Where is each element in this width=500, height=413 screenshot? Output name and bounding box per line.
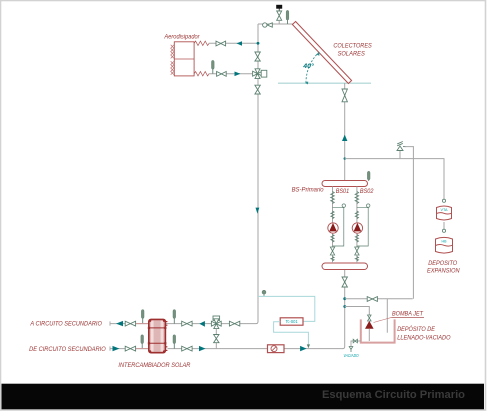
valve bottom row left	[125, 346, 135, 351]
flex connector branch2 upper	[355, 192, 359, 204]
wire: aero bottom pipe	[209, 73, 252, 75]
node at riser top pipe	[257, 42, 260, 45]
expansion tank 2	[436, 237, 453, 253]
red stub top-left	[136, 323, 148, 325]
valve aero top	[216, 41, 226, 46]
thermometer aero bottom	[212, 69, 214, 74]
node: riser tee	[344, 157, 346, 159]
tank llenado-vaciado	[361, 319, 395, 342]
drain valve at tank	[351, 341, 361, 347]
temp sensor on left riser	[263, 294, 265, 296]
wire: jet pump suction	[368, 329, 370, 341]
top manifold	[322, 181, 368, 187]
wire: jet pump discharge	[345, 307, 370, 316]
thermometer above top manifold	[368, 180, 370, 182]
balancing valve with actuator	[213, 316, 220, 320]
fan blades	[171, 45, 174, 59]
wire: right riser lower (pump manifold to bottom line)	[343, 270, 345, 349]
air vent (black)	[278, 9, 280, 12]
svg-text:SOLARES: SOLARES	[338, 51, 366, 58]
flex connector branch2 below pump	[355, 235, 358, 243]
expansion tank 1	[437, 206, 452, 220]
check fitting above jet pump	[368, 315, 372, 321]
control line controller to pipe sensor	[274, 322, 309, 345]
thermometer top-left of HX	[142, 318, 144, 324]
flow arrow from aero	[235, 72, 241, 77]
flex connector branch1 bottom	[331, 257, 334, 261]
connector circle above tank 1	[442, 199, 445, 202]
flex connector branch2 mid	[355, 211, 358, 219]
wire: safety valve stub	[399, 151, 401, 159]
spring top pipe	[194, 41, 209, 45]
wire: aero top pipe	[209, 42, 258, 44]
aerodisipador box	[174, 42, 194, 76]
svg-text:DEPOSITO: DEPOSITO	[428, 260, 457, 267]
wire: dip tube into tank	[386, 299, 388, 333]
valve on drain line	[367, 297, 377, 302]
heat exchanger	[149, 319, 166, 352]
flex connector branch2 bottom	[355, 257, 358, 261]
svg-text:BOMBA JET: BOMBA JET	[392, 311, 424, 318]
flow arrow up on right riser	[342, 135, 347, 141]
pipe sensor arrow	[307, 344, 310, 348]
flex connector branch1 below pump	[331, 235, 334, 243]
svg-text:BS02: BS02	[360, 188, 374, 195]
wire: top row (A circuito secundario)	[110, 323, 256, 325]
valve branch2 lower	[355, 247, 359, 255]
svg-text:BS01: BS01	[336, 188, 350, 195]
flow arrow before riser	[300, 346, 307, 351]
bottom manifold	[322, 263, 368, 270]
control line sensor to controller	[258, 296, 315, 321]
title bar	[2, 384, 485, 410]
safety valve	[397, 142, 406, 151]
svg-text:VACIADO: VACIADO	[344, 353, 360, 358]
valve below collector	[342, 89, 347, 102]
svg-text:LLENADO-VACIADO: LLENADO-VACIADO	[397, 335, 450, 342]
flow arrow down on left riser	[256, 208, 260, 214]
flex connector branch1 mid	[331, 211, 334, 219]
wire: bottom row right of exchanger	[168, 348, 344, 350]
wire: top header pipe to collector	[258, 23, 295, 25]
flow arrow out of HX bottom	[199, 346, 206, 351]
valve branch1 lower	[330, 247, 334, 255]
pump branch 1 pipe	[332, 187, 334, 264]
svg-text:HB: HB	[442, 240, 448, 244]
valve on vent stem	[277, 11, 282, 20]
arc arrowhead bottom	[305, 81, 308, 84]
svg-text:Aerodisipador: Aerodisipador	[163, 35, 200, 41]
svg-text:EXPANSION: EXPANSION	[427, 268, 460, 275]
check valve on header	[263, 23, 267, 27]
start tick top row	[109, 321, 111, 325]
thermometer top-right of HX	[173, 318, 175, 324]
wire: drain line to safety discharge	[345, 298, 413, 300]
svg-text:A CIRCUITO SECUNDARIO: A CIRCUITO SECUNDARIO	[29, 320, 102, 327]
node: riser junction upper	[343, 297, 346, 300]
flow meter	[268, 345, 285, 353]
arc arrowhead top	[316, 52, 319, 56]
flow arrow to aero	[236, 41, 242, 46]
node: riser junction lower	[343, 305, 346, 308]
flow arrow left (a circuito)	[116, 321, 123, 326]
flex connector branch1 upper	[331, 192, 335, 204]
thermometer bottom-left of HX	[141, 343, 143, 348]
gauge bypass branch 2	[357, 208, 368, 246]
valve aero bottom	[217, 72, 227, 77]
valve on riser above 3way	[255, 52, 260, 61]
svg-text:DE CIRCUITO SECUNDARIO: DE CIRCUITO SECUNDARIO	[29, 346, 106, 353]
red stub bottom-left	[136, 348, 148, 350]
flow arrow right (de circuito)	[113, 346, 120, 351]
wire: left riser	[256, 24, 258, 324]
pump BS01	[328, 223, 338, 233]
angle arc 40deg	[306, 53, 319, 83]
valve bottom row right	[182, 346, 192, 351]
valve on riser below 3way	[255, 85, 260, 94]
thermometer on header	[287, 20, 289, 25]
jet pump triangle	[365, 321, 374, 329]
valve below bottom manifold	[342, 277, 347, 287]
check valve on bypass	[214, 335, 219, 343]
svg-text:INTERCAMBIADOR SOLAR: INTERCAMBIADOR SOLAR	[118, 362, 190, 369]
wire: bypass down	[215, 329, 217, 349]
controller Tc-S01	[280, 318, 303, 325]
drain outlet arrow	[349, 347, 353, 353]
valve top row left	[125, 321, 135, 326]
valve right of balancing valve	[229, 321, 239, 326]
flow arrow into HX top	[199, 321, 205, 327]
three-way valve at aero return	[253, 69, 263, 79]
connector circle above tank 2	[443, 222, 445, 229]
wire: bottom row left of exchanger	[110, 348, 148, 350]
wire: safety discharge	[405, 147, 414, 299]
collector panel	[292, 22, 351, 84]
svg-text:40°: 40°	[302, 62, 314, 70]
svg-text:Tc-S01: Tc-S01	[286, 319, 299, 324]
pump branch 2 pipe	[356, 187, 358, 264]
start tick bottom row	[109, 346, 111, 350]
gauge bypass branch 1	[333, 208, 344, 246]
ground baseline	[278, 82, 371, 84]
svg-text:COLECTORES: COLECTORES	[333, 43, 372, 50]
spring bottom pipe	[194, 72, 209, 76]
thermometer bottom-right of HX	[173, 343, 175, 348]
svg-text:BS-Primario: BS-Primario	[292, 187, 325, 194]
valve top row right	[182, 321, 192, 326]
svg-text:VTA: VTA	[441, 208, 449, 212]
wire: right riser upper (collector to pump manifold)	[344, 84, 346, 181]
svg-text:DEPÓSITO DE: DEPÓSITO DE	[397, 326, 435, 333]
pump BS02	[352, 223, 362, 233]
svg-text:Esquema Circuito Primario: Esquema Circuito Primario	[322, 389, 465, 401]
wire: expansion header	[345, 159, 444, 199]
